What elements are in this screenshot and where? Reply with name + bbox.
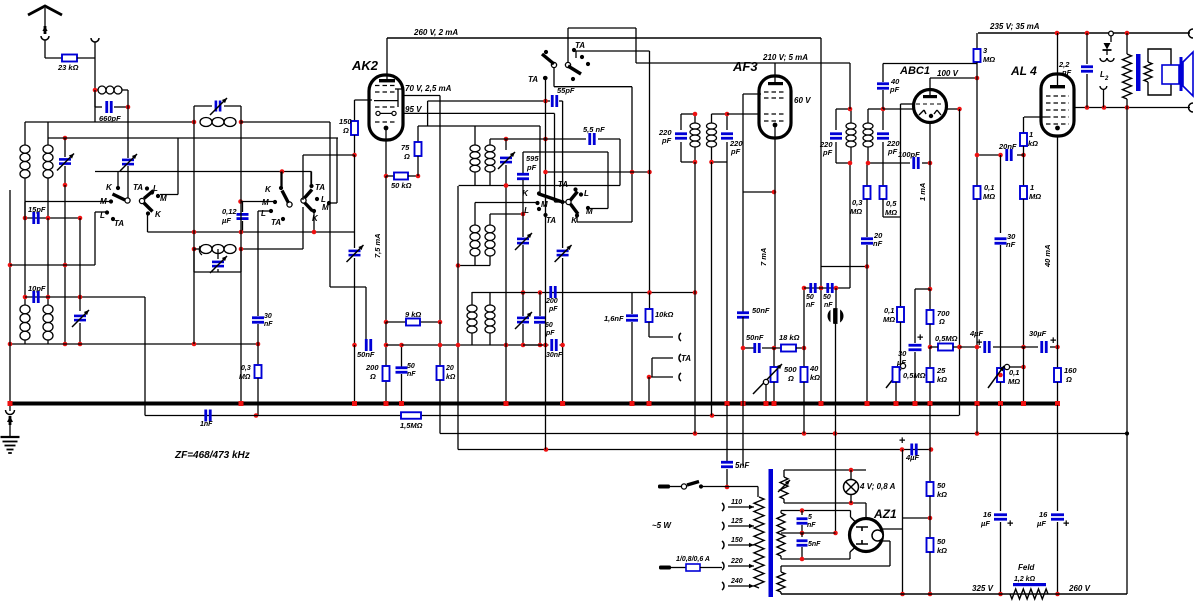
svg-text:+: + bbox=[899, 435, 905, 447]
svg-text:100 V: 100 V bbox=[937, 69, 959, 78]
svg-text:kΩ: kΩ bbox=[937, 546, 947, 555]
svg-text:2: 2 bbox=[1104, 76, 1109, 82]
svg-text:Ω: Ω bbox=[1065, 375, 1072, 384]
svg-text:+: + bbox=[1063, 518, 1069, 530]
svg-text:50: 50 bbox=[937, 481, 946, 490]
svg-text:7 mA: 7 mA bbox=[759, 248, 768, 266]
svg-text:18 kΩ: 18 kΩ bbox=[779, 333, 800, 342]
svg-text:pF: pF bbox=[887, 147, 898, 156]
svg-text:7,5 mA: 7,5 mA bbox=[373, 233, 382, 258]
svg-text:1nF: 1nF bbox=[200, 421, 213, 428]
svg-text:AF3: AF3 bbox=[732, 59, 758, 74]
svg-text:50 kΩ: 50 kΩ bbox=[391, 181, 412, 190]
svg-text:50nF: 50nF bbox=[752, 306, 770, 315]
svg-text:M: M bbox=[160, 194, 167, 203]
svg-text:TA: TA bbox=[315, 183, 325, 192]
svg-text:150: 150 bbox=[731, 537, 743, 544]
svg-text:nF: nF bbox=[264, 321, 273, 328]
svg-text:50: 50 bbox=[407, 363, 415, 370]
svg-text:200: 200 bbox=[545, 298, 558, 305]
svg-text:30: 30 bbox=[898, 349, 907, 358]
svg-text:0,5MΩ: 0,5MΩ bbox=[903, 371, 926, 380]
svg-text:TA: TA bbox=[575, 41, 585, 50]
svg-text:pF: pF bbox=[545, 330, 555, 337]
svg-text:25: 25 bbox=[936, 366, 946, 375]
svg-text:50: 50 bbox=[937, 537, 946, 546]
svg-text:pF: pF bbox=[822, 148, 833, 157]
svg-text:0,3: 0,3 bbox=[852, 198, 863, 207]
svg-text:1,5MΩ: 1,5MΩ bbox=[400, 421, 423, 430]
svg-text:TA: TA bbox=[546, 216, 556, 225]
svg-text:325 V: 325 V bbox=[972, 584, 994, 593]
svg-text:0,1: 0,1 bbox=[1009, 368, 1019, 377]
svg-text:nF: nF bbox=[807, 522, 816, 529]
svg-text:50: 50 bbox=[806, 294, 814, 301]
svg-text:70 V, 2,5 mA: 70 V, 2,5 mA bbox=[405, 84, 452, 93]
svg-text:pF: pF bbox=[548, 306, 558, 313]
svg-text:16: 16 bbox=[983, 510, 992, 519]
svg-text:pF: pF bbox=[889, 85, 900, 94]
svg-text:260 V, 2 mA: 260 V, 2 mA bbox=[413, 28, 458, 37]
svg-text:pF: pF bbox=[730, 147, 741, 156]
svg-text:50: 50 bbox=[823, 294, 831, 301]
svg-text:210 V; 5 mA: 210 V; 5 mA bbox=[762, 53, 808, 62]
svg-text:M: M bbox=[262, 198, 269, 207]
svg-text:MΩ: MΩ bbox=[885, 208, 897, 217]
svg-text:1: 1 bbox=[1030, 183, 1034, 192]
svg-text:0,1: 0,1 bbox=[984, 183, 994, 192]
svg-text:75: 75 bbox=[401, 143, 410, 152]
svg-text:MΩ: MΩ bbox=[1029, 192, 1041, 201]
svg-text:20nF: 20nF bbox=[998, 142, 1017, 151]
svg-text:500: 500 bbox=[784, 365, 797, 374]
svg-text:0,5MΩ: 0,5MΩ bbox=[935, 334, 958, 343]
svg-text:µF: µF bbox=[1036, 519, 1046, 528]
svg-text:pF: pF bbox=[526, 163, 537, 172]
svg-text:4µF: 4µF bbox=[969, 329, 983, 338]
svg-text:+: + bbox=[1050, 335, 1056, 347]
svg-text:0,1: 0,1 bbox=[884, 306, 894, 315]
svg-text:TA: TA bbox=[681, 354, 691, 363]
svg-text:30µF: 30µF bbox=[1029, 329, 1047, 338]
svg-text:60: 60 bbox=[545, 322, 553, 329]
svg-text:0,12: 0,12 bbox=[222, 207, 237, 216]
svg-text:260 V: 260 V bbox=[1068, 584, 1091, 593]
svg-text:µF: µF bbox=[221, 216, 231, 225]
svg-text:M: M bbox=[541, 200, 548, 209]
svg-text:95 V: 95 V bbox=[405, 105, 422, 114]
svg-text:30: 30 bbox=[264, 313, 272, 320]
svg-text:200: 200 bbox=[365, 363, 379, 372]
svg-text:Feld: Feld bbox=[1018, 563, 1036, 572]
svg-text:1/0,8/0,6 A: 1/0,8/0,6 A bbox=[676, 556, 710, 563]
svg-text:235 V; 35 mA: 235 V; 35 mA bbox=[989, 22, 1040, 31]
svg-text:pF: pF bbox=[661, 136, 672, 145]
svg-text:L: L bbox=[524, 206, 529, 215]
svg-text:kΩ: kΩ bbox=[937, 490, 947, 499]
svg-text:150: 150 bbox=[339, 117, 352, 126]
svg-text:4µF: 4µF bbox=[905, 453, 919, 462]
svg-text:nF: nF bbox=[806, 302, 815, 309]
svg-text:125: 125 bbox=[731, 518, 743, 525]
svg-text:160: 160 bbox=[1064, 366, 1077, 375]
svg-text:Ω: Ω bbox=[938, 317, 945, 326]
svg-text:50nF: 50nF bbox=[357, 350, 375, 359]
svg-text:AK2: AK2 bbox=[351, 58, 379, 73]
svg-text:µF: µF bbox=[980, 519, 990, 528]
svg-text:nF: nF bbox=[873, 239, 883, 248]
svg-text:Ω: Ω bbox=[342, 126, 349, 135]
svg-text:1 mA: 1 mA bbox=[918, 183, 927, 201]
svg-text:30nF: 30nF bbox=[546, 352, 563, 359]
svg-text:ZF=468/473 kHz: ZF=468/473 kHz bbox=[174, 450, 250, 461]
svg-text:MΩ: MΩ bbox=[1008, 377, 1020, 386]
svg-text:40 mA: 40 mA bbox=[1043, 244, 1052, 268]
svg-text:+: + bbox=[917, 332, 923, 344]
svg-text:ABC1: ABC1 bbox=[899, 65, 930, 77]
svg-text:kΩ: kΩ bbox=[1028, 139, 1038, 148]
svg-text:20: 20 bbox=[445, 365, 454, 372]
svg-text:kΩ: kΩ bbox=[446, 374, 456, 381]
svg-text:0,3: 0,3 bbox=[241, 365, 251, 372]
svg-text:kΩ: kΩ bbox=[810, 373, 820, 382]
svg-text:23 kΩ: 23 kΩ bbox=[57, 63, 79, 72]
svg-text:~5 W: ~5 W bbox=[652, 521, 672, 530]
svg-text:kΩ: kΩ bbox=[937, 375, 947, 384]
svg-text:TA: TA bbox=[528, 75, 538, 84]
svg-text:5,5 nF: 5,5 nF bbox=[583, 125, 605, 134]
svg-text:MΩ: MΩ bbox=[850, 207, 862, 216]
svg-text:AZ1: AZ1 bbox=[873, 507, 897, 521]
svg-text:+: + bbox=[1007, 518, 1013, 530]
svg-text:nF: nF bbox=[824, 302, 833, 309]
svg-text:1: 1 bbox=[1029, 130, 1033, 139]
svg-text:nF: nF bbox=[1006, 240, 1016, 249]
svg-text:Ω: Ω bbox=[403, 152, 410, 161]
svg-text:16: 16 bbox=[1039, 510, 1048, 519]
svg-text:110: 110 bbox=[731, 499, 742, 506]
svg-text:5nF: 5nF bbox=[735, 461, 750, 470]
svg-text:5nF: 5nF bbox=[808, 541, 821, 548]
svg-text:100pF: 100pF bbox=[898, 150, 920, 159]
svg-text:TA: TA bbox=[133, 183, 143, 192]
svg-text:9 kΩ: 9 kΩ bbox=[405, 310, 421, 319]
svg-text:0,5: 0,5 bbox=[886, 199, 897, 208]
svg-text:240: 240 bbox=[730, 578, 743, 585]
svg-text:5: 5 bbox=[808, 514, 812, 521]
svg-text:L: L bbox=[584, 189, 589, 198]
svg-text:60 V: 60 V bbox=[794, 96, 811, 105]
svg-text:MΩ: MΩ bbox=[239, 374, 251, 381]
svg-text:nF: nF bbox=[407, 371, 416, 378]
svg-text:50nF: 50nF bbox=[746, 333, 764, 342]
svg-text:1,6nF: 1,6nF bbox=[604, 314, 624, 323]
svg-text:MΩ: MΩ bbox=[983, 192, 995, 201]
svg-text:AL 4: AL 4 bbox=[1010, 64, 1037, 78]
svg-text:4 V; 0,8 A: 4 V; 0,8 A bbox=[859, 482, 896, 491]
svg-text:595: 595 bbox=[526, 154, 539, 163]
svg-text:TA: TA bbox=[558, 180, 568, 189]
svg-text:MΩ: MΩ bbox=[883, 315, 895, 324]
svg-text:MΩ: MΩ bbox=[983, 55, 995, 64]
svg-text:M: M bbox=[100, 197, 107, 206]
svg-text:220: 220 bbox=[730, 558, 743, 565]
svg-text:10kΩ: 10kΩ bbox=[655, 310, 674, 319]
svg-text:Ω: Ω bbox=[787, 374, 794, 383]
svg-text:40: 40 bbox=[809, 364, 819, 373]
svg-text:Ω: Ω bbox=[369, 372, 376, 381]
svg-text:nF: nF bbox=[1062, 68, 1072, 77]
svg-text:TA: TA bbox=[114, 219, 124, 228]
svg-text:+: + bbox=[976, 337, 982, 349]
svg-text:1,2 kΩ: 1,2 kΩ bbox=[1014, 576, 1036, 583]
svg-text:TA: TA bbox=[271, 218, 281, 227]
